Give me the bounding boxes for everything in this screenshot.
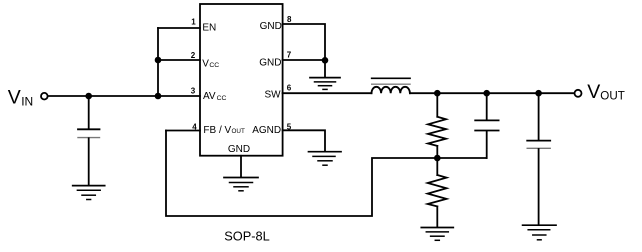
svg-text:CC: CC	[217, 95, 227, 102]
svg-text:V: V	[8, 86, 21, 108]
svg-text:7: 7	[287, 50, 292, 59]
resistor R2 lower feedback	[428, 158, 447, 227]
capacitor Cff feedforward	[475, 93, 498, 158]
svg-text:6: 6	[287, 84, 292, 93]
svg-text:AGND: AGND	[252, 125, 281, 136]
ground AGND	[309, 152, 342, 166]
svg-text:GND: GND	[259, 57, 281, 68]
svg-text:V: V	[202, 58, 209, 69]
svg-text:V: V	[587, 81, 600, 103]
ground IC bottom	[224, 178, 258, 191]
terminal VIN	[41, 93, 48, 100]
svg-text:8: 8	[287, 15, 292, 24]
capacitor CIN	[78, 96, 100, 185]
wire feedback loop	[166, 131, 487, 217]
wire to pin 1 EN	[158, 27, 200, 29]
wire inductor to VOUT	[410, 92, 574, 94]
junction node pin7/8 gnd	[322, 57, 329, 64]
ground R2	[421, 228, 453, 241]
op IC U1 body	[200, 4, 283, 156]
resistor R1 upper feedback	[428, 93, 446, 158]
label VIN	[8, 86, 33, 108]
svg-text:2: 2	[191, 51, 196, 60]
svg-text:SW: SW	[264, 90, 281, 101]
pin label AVCC	[203, 91, 227, 102]
svg-text:OUT: OUT	[232, 128, 245, 135]
svg-text:OUT: OUT	[600, 90, 624, 103]
ground CIN	[73, 186, 105, 200]
junction node EN/VCC branch	[155, 93, 162, 100]
inductor L1	[372, 78, 411, 93]
svg-text:GND: GND	[260, 21, 282, 32]
svg-text:EN: EN	[202, 22, 216, 33]
wire VIN to pin 3 AVCC	[48, 95, 200, 97]
junction node SW/R1	[434, 90, 441, 97]
svg-text:IN: IN	[21, 94, 33, 108]
wire to pin 2 VCC	[158, 59, 200, 61]
terminal VOUT	[575, 90, 582, 97]
wire pin 5 AGND	[283, 130, 325, 151]
junction node Cff	[483, 90, 490, 97]
label VOUT	[587, 81, 625, 103]
wire pin 6 SW to inductor	[283, 92, 372, 94]
wire to pin 4 FB	[166, 130, 200, 132]
wire IC bottom GND stem	[240, 156, 242, 177]
ground COUT	[523, 225, 556, 240]
svg-text:FB / V: FB / V	[203, 125, 231, 136]
svg-text:3: 3	[191, 86, 196, 95]
svg-text:AV: AV	[203, 91, 216, 102]
svg-text:4: 4	[192, 122, 197, 131]
capacitor COUT	[527, 93, 550, 225]
junction node CIN	[85, 93, 92, 100]
wire branch up to EN	[157, 28, 159, 96]
wire pin 7 GND	[283, 59, 325, 61]
pin label FB/VOUT	[203, 125, 245, 136]
svg-text:1: 1	[191, 18, 196, 27]
svg-text:CC: CC	[209, 62, 219, 69]
wire pin 8 GND	[283, 24, 325, 77]
ground pins 7/8	[310, 78, 340, 90]
svg-text:SOP-8L: SOP-8L	[224, 229, 270, 244]
junction node FB	[434, 155, 441, 162]
pin label VCC	[202, 58, 219, 69]
junction node VCC	[155, 57, 162, 64]
junction node Cout	[535, 90, 542, 97]
svg-text:GND: GND	[228, 144, 250, 155]
